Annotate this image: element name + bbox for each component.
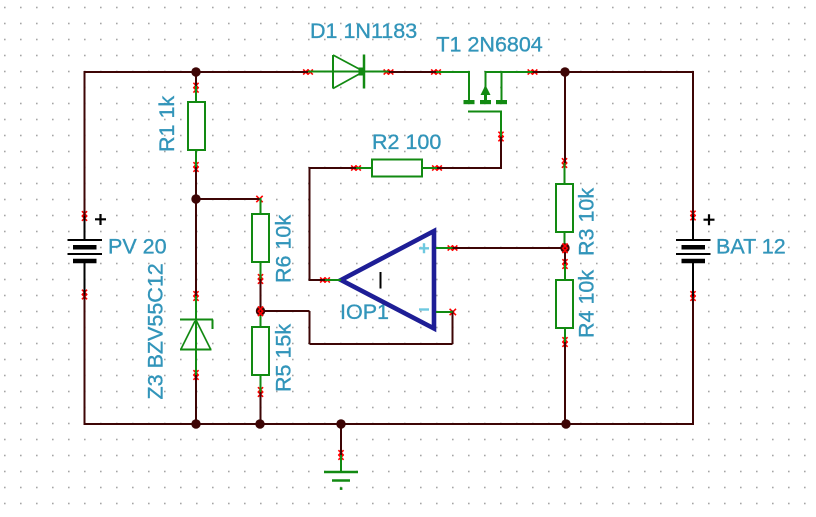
zener diode Z3 [180, 296, 213, 375]
junction bottom rail ground [336, 419, 345, 428]
label Z3 BZV55C12 [144, 263, 168, 399]
battery PV [68, 214, 107, 295]
pin marks R1 top [193, 83, 198, 93]
wire R6 to node B [260, 279, 262, 311]
wire node A to R6 [196, 198, 261, 200]
wire R4 to bottom rail [564, 342, 566, 424]
wire gate drop [500, 137, 502, 170]
wire R1 top to rail [195, 72, 197, 86]
label BAT 12 [716, 235, 786, 259]
pin marks PV bottom [82, 290, 87, 300]
resistor R4 [556, 264, 573, 342]
pin marks R4 top [562, 259, 567, 269]
pin marks T1 source [528, 69, 538, 74]
wire top rail left segment [85, 71, 309, 73]
pin marks BAT bottom [690, 291, 695, 301]
wire Z3 to bottom rail [195, 375, 197, 424]
svg-text:R4 10k: R4 10k [575, 270, 599, 338]
wire top rail T1 to battery [533, 71, 695, 73]
wire bottom rail [84, 423, 695, 425]
junction bottom rail Z3 [191, 419, 200, 428]
diode D1 [308, 55, 389, 89]
wire output vertical [309, 168, 311, 281]
wire rail to R3 [564, 72, 566, 163]
battery BAT [676, 214, 715, 296]
svg-text:R6 10k: R6 10k [272, 215, 296, 283]
pin marks Z3 bottom [193, 370, 198, 380]
pin marks R2 left [351, 165, 361, 170]
resistor R5 [252, 311, 269, 392]
svg-text:R3 10k: R3 10k [575, 188, 599, 256]
pin marks T1 drain [431, 69, 441, 74]
pin marks R4 bottom [562, 337, 567, 347]
pin marks BAT top [690, 211, 695, 221]
wire ground drop [340, 424, 342, 455]
wire minus rise to pin [452, 311, 454, 345]
label PV 20 [108, 235, 167, 259]
pin marks R5 bottom [258, 387, 263, 397]
junction bottom rail R5 [255, 419, 264, 428]
pin marks ground [338, 450, 343, 460]
wire node B right [261, 310, 310, 312]
wire minus bottom run [310, 343, 453, 345]
label R2 100 [372, 130, 441, 154]
pin marks op-amp plus input [448, 245, 458, 250]
junction node top-left rail R1 [191, 67, 200, 76]
ground [324, 455, 358, 490]
label R3 10k [575, 188, 599, 256]
pin marks R6 bottom [258, 274, 263, 284]
resistor R3 [556, 163, 573, 249]
pin marks R1 bottom [193, 162, 198, 172]
wire plus input run [453, 247, 566, 249]
svg-text:PV 20: PV 20 [108, 235, 167, 259]
pin marks R2 right [432, 165, 442, 170]
wire right rail lower [692, 296, 694, 425]
svg-text:BAT 12: BAT 12 [716, 235, 786, 259]
svg-text:R2 100: R2 100 [372, 130, 441, 154]
label D1 1N1183 [310, 19, 417, 43]
svg-text:T1 2N6804: T1 2N6804 [436, 33, 542, 57]
transistor T1 [436, 71, 533, 137]
label R6 10k [272, 215, 296, 283]
op-amp IOP1 [325, 231, 453, 329]
wire junction C to R4 [564, 248, 566, 264]
resistor R2 [356, 160, 437, 177]
label R1 1k [155, 96, 179, 152]
wire left rail lower [84, 295, 86, 426]
pin marks Z3 top [193, 291, 198, 301]
label R5 15k [272, 324, 296, 392]
pin marks R6 top [256, 196, 262, 202]
label IOP1 [340, 300, 389, 324]
junction node top rail R3 [560, 67, 569, 76]
junction node C plus input [560, 243, 569, 253]
wire R1 bottom to node A [195, 167, 197, 199]
label T1 2N6804 [436, 33, 542, 57]
junction node A [191, 194, 200, 203]
pin marks D1 cathode [384, 69, 394, 74]
pin marks D1 anode [303, 69, 313, 74]
wire node A to Z3 [195, 199, 197, 296]
svg-text:R1 1k: R1 1k [155, 96, 179, 152]
svg-text:D1 1N1183: D1 1N1183 [310, 19, 417, 43]
wire left rail upper [84, 71, 86, 216]
wire output horizontal [310, 279, 326, 281]
wire right rail upper [692, 71, 694, 216]
svg-text:R5 15k: R5 15k [272, 324, 296, 392]
pin marks R3 top [562, 158, 567, 168]
wire top rail diode to T1 [389, 71, 437, 73]
resistor R6 [252, 198, 269, 279]
pin marks op-amp output [320, 277, 330, 282]
svg-text:Z3 BZV55C12: Z3 BZV55C12 [144, 263, 168, 399]
pin marks PV top [82, 211, 87, 221]
wire minus jog down [309, 311, 311, 344]
junction bottom rail R4 [561, 419, 570, 428]
pin marks op-amp minus input [450, 309, 456, 315]
wire R2 right run [437, 167, 502, 169]
resistor R1 [188, 86, 205, 167]
wire R5 to bottom rail [260, 392, 262, 424]
label R4 10k [575, 270, 599, 338]
junction node B [256, 306, 265, 316]
pin marks T1 gate [498, 132, 503, 142]
wire R2 left run [309, 167, 357, 169]
